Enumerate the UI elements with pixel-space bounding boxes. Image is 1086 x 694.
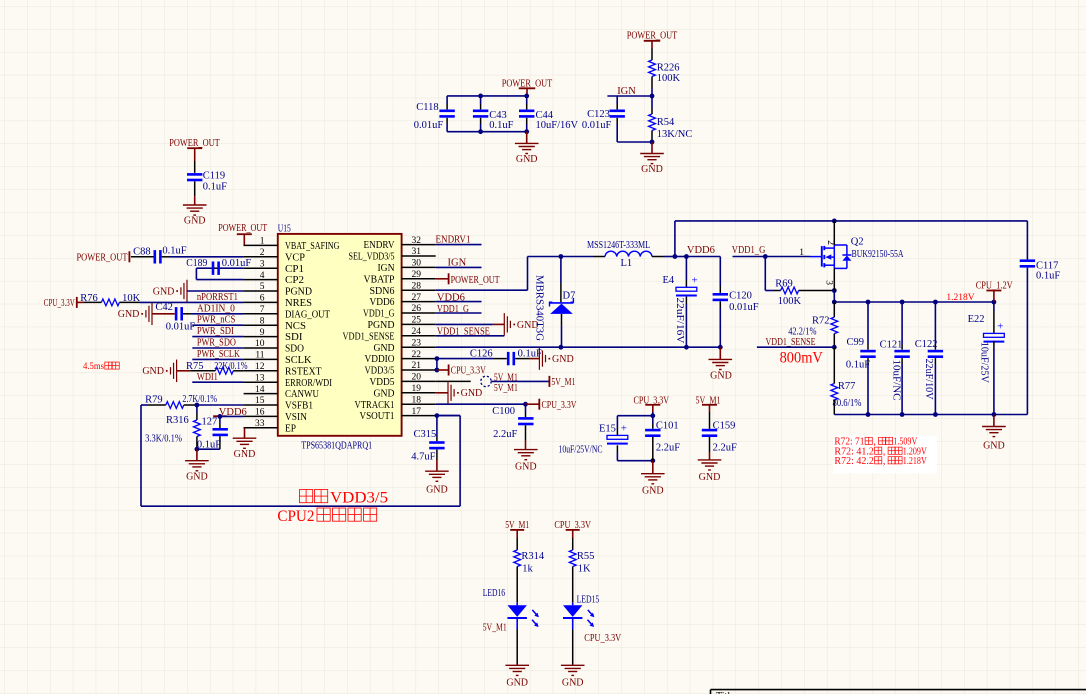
svg-text:IGN: IGN [378, 263, 395, 274]
wire net POWER_OUT top [447, 95, 527, 97]
junction [933, 300, 938, 305]
pin 16 (VSIN) [244, 415, 278, 417]
wire net PWR_SDI [192, 336, 243, 338]
junction [195, 447, 200, 452]
junction [832, 219, 837, 224]
pin 25 (PGND) [402, 323, 436, 325]
svg-text:R54: R54 [657, 117, 675, 128]
ground (below C119) [183, 204, 207, 206]
svg-text:PGND: PGND [368, 320, 395, 331]
inductor L1 [593, 256, 605, 258]
wire net nPORRST1 [140, 301, 244, 303]
svg-text:VDD6: VDD6 [687, 245, 715, 256]
svg-text:13: 13 [255, 373, 265, 383]
ground (at C42) [151, 303, 153, 326]
svg-text:28: 28 [412, 281, 422, 291]
svg-text:C99: C99 [847, 337, 865, 348]
junction [523, 402, 528, 407]
wire [561, 256, 593, 258]
svg-text:CANWU: CANWU [285, 389, 320, 400]
svg-text:0.01uF: 0.01uF [729, 302, 759, 313]
pin 18 (VTRACK1) [402, 403, 436, 405]
pin 8 (NCS) [244, 324, 278, 326]
pin 17 (VSOUT1) [402, 415, 436, 417]
wire net VDD1_G [733, 256, 811, 258]
power port CPU_3.3V (pin 18) [526, 403, 540, 405]
svg-text:22uF/10V: 22uF/10V [923, 359, 934, 400]
junction [866, 300, 871, 305]
wire output rail CPU_1.2V [833, 291, 835, 303]
svg-text:VSFB1: VSFB1 [285, 401, 313, 412]
ground (at R75) [176, 360, 178, 383]
svg-text:1: 1 [799, 248, 804, 258]
capacitor C117 [1026, 221, 1028, 260]
junction [559, 345, 564, 350]
ground (below C315) [436, 460, 438, 471]
svg-text:R79: R79 [145, 394, 163, 405]
junction [900, 300, 905, 305]
svg-text:TPS65381QDAPRQ1: TPS65381QDAPRQ1 [301, 441, 372, 452]
svg-text:VDD1_G: VDD1_G [363, 309, 395, 320]
svg-text:VDD3/5: VDD3/5 [330, 490, 388, 507]
wire [194, 161, 196, 173]
svg-text:NCS: NCS [285, 321, 306, 332]
svg-text:+: + [621, 423, 627, 435]
svg-text:24: 24 [412, 327, 422, 337]
wire GND bottom row [446, 124, 448, 132]
svg-text:CPU_3.3V: CPU_3.3V [542, 400, 577, 411]
svg-text:SDI: SDI [285, 332, 303, 343]
capacitor C42 [152, 313, 175, 315]
ground (below E22) [993, 415, 995, 427]
op-amp U1 body rectangle (IC U15 TPS65381QDAPRQ1) [278, 234, 402, 436]
wire pin17 VSOUT1 [436, 415, 460, 417]
svg-text:MBRS340T3G: MBRS340T3G [534, 275, 545, 341]
junction [992, 412, 997, 417]
junction [992, 300, 997, 305]
wire net WDI1 [192, 381, 243, 383]
capacitor C101 [652, 416, 654, 424]
svg-text:ENDRV: ENDRV [364, 240, 396, 251]
wire pin18 VTRACK1 [436, 403, 526, 405]
svg-text:VTRACK1: VTRACK1 [355, 400, 395, 411]
pin 12 (RSTEXT) [244, 370, 278, 372]
svg-text:0.1uF: 0.1uF [518, 348, 542, 359]
svg-text:D7: D7 [563, 290, 576, 301]
junction [559, 254, 564, 259]
svg-text:R316: R316 [166, 415, 189, 426]
resistor R54 [651, 96, 653, 108]
capacitor C189 [212, 267, 220, 269]
svg-text:C100: C100 [492, 406, 515, 417]
svg-text:2: 2 [260, 248, 265, 258]
svg-text:GND: GND [461, 388, 483, 399]
pin 20 (VDD5) [402, 380, 436, 382]
wire net VDD1_G pin26 [436, 312, 482, 314]
svg-text:4: 4 [260, 271, 265, 281]
svg-text:C122: C122 [915, 339, 938, 350]
svg-text:C123: C123 [587, 109, 610, 120]
svg-text:RSTEXT: RSTEXT [285, 366, 322, 377]
ground (below R54) [651, 142, 653, 154]
pin 29 (VBATP) [402, 278, 436, 280]
wire feedback loop VSOUT1 to R79 [140, 405, 142, 506]
pin 23 (GND) [402, 346, 436, 348]
pin 21 (VDD3/5) [402, 369, 436, 371]
svg-text:+: + [692, 275, 698, 287]
capacitor C120 [719, 257, 721, 287]
ground (below C159) [709, 452, 711, 460]
svg-text:R77: R77 [838, 381, 856, 392]
junction [478, 94, 483, 99]
svg-text:GND: GND [374, 388, 395, 399]
svg-text:20: 20 [412, 373, 422, 383]
svg-text:33: 33 [255, 419, 265, 429]
junction [435, 356, 440, 361]
resistor R316 [196, 405, 198, 413]
svg-text:,: , [883, 456, 886, 467]
wire pin15 [197, 404, 244, 406]
svg-text:3: 3 [260, 259, 265, 269]
wire [194, 181, 196, 196]
resistor R72 [833, 302, 835, 317]
svg-text:2: 2 [825, 240, 835, 245]
svg-text:POWER_OUT: POWER_OUT [627, 30, 678, 41]
svg-text:GND: GND [506, 678, 528, 689]
svg-text:22uF/16V: 22uF/16V [674, 298, 685, 344]
svg-text:GND: GND [710, 370, 732, 381]
svg-text:R72: R72 [812, 315, 830, 326]
svg-text:C119: C119 [203, 170, 225, 181]
svg-text:42.2/1%: 42.2/1% [788, 326, 816, 337]
svg-text:LED15: LED15 [577, 595, 600, 606]
capacitor C100 [525, 404, 527, 413]
svg-text:10uF/25V/NC: 10uF/25V/NC [559, 444, 603, 455]
wire [664, 256, 675, 258]
pin 31 (SEL_VDD3/5) [402, 255, 436, 257]
wire pin5 [187, 290, 244, 292]
svg-text:C88: C88 [133, 247, 151, 258]
svg-text:E15: E15 [599, 424, 616, 435]
svg-text:80.6/1%: 80.6/1% [833, 398, 862, 409]
svg-text:100K: 100K [778, 296, 802, 307]
svg-text:4.5ms: 4.5ms [83, 362, 104, 372]
wire [651, 88, 653, 96]
wire net CP1-CP2 [220, 267, 244, 269]
svg-text:GND: GND [234, 449, 256, 460]
svg-text:GND: GND [641, 164, 663, 175]
svg-text:R314: R314 [521, 551, 545, 562]
wire net VDD6 pin27 [436, 301, 482, 303]
wire bottom rail [834, 414, 1027, 416]
capacitor C119 [187, 173, 202, 176]
capacitor C43 [480, 104, 482, 109]
svg-text:+: + [997, 320, 1003, 332]
junction [900, 412, 905, 417]
svg-text:0.01uF: 0.01uF [166, 322, 196, 333]
svg-text:0.01uF: 0.01uF [414, 120, 444, 131]
junction [718, 345, 723, 350]
pin 10 (SDO) [244, 347, 278, 349]
svg-text:11: 11 [255, 351, 264, 361]
resistor R69 [764, 257, 766, 291]
svg-text:PWR_SCLK: PWR_SCLK [197, 349, 240, 360]
ground (at C126) [529, 358, 539, 360]
svg-text:CPU_3.3V: CPU_3.3V [584, 633, 621, 644]
junction [650, 413, 655, 418]
capacitor C123 [616, 104, 618, 109]
wire pin1 [243, 244, 246, 246]
junction [650, 140, 655, 145]
svg-text:GND: GND [552, 354, 574, 365]
wire net GND rail (pin 23) [436, 346, 721, 348]
capacitor C159 [709, 412, 711, 429]
svg-text:LED16: LED16 [483, 588, 505, 599]
annotation tracking VDD3/5 (red) [300, 490, 313, 503]
resistor R77 [833, 347, 835, 383]
svg-text:E4: E4 [663, 275, 675, 286]
svg-text:VDDIO: VDDIO [365, 354, 395, 365]
svg-text:Q2: Q2 [851, 237, 864, 248]
pin 14 (CANWU) [244, 393, 278, 395]
pin 6 (NRES) [244, 301, 278, 303]
svg-text:1k: 1k [522, 564, 533, 575]
svg-text:C101: C101 [656, 420, 679, 431]
capacitor C44 [526, 104, 528, 109]
svg-text:13K/NC: 13K/NC [657, 129, 693, 140]
svg-text:GND: GND [699, 472, 721, 483]
wire net SDN6 [436, 289, 528, 291]
svg-text:0.1uF: 0.1uF [162, 245, 186, 256]
svg-text:VDD1_G: VDD1_G [732, 245, 766, 256]
pin 22 (VDDIO) [402, 358, 436, 360]
svg-text:14: 14 [255, 385, 265, 395]
pin 33 (EP) [244, 427, 278, 429]
node IGN junction [650, 94, 655, 99]
svg-text:GND: GND [642, 486, 664, 497]
junction [684, 345, 689, 350]
pin 3 (CP1) [244, 267, 278, 269]
svg-text:POWER_OUT: POWER_OUT [77, 252, 128, 263]
junction [832, 300, 837, 305]
svg-text:2.2uF: 2.2uF [713, 443, 737, 454]
svg-text:VSOUT1: VSOUT1 [360, 411, 395, 422]
junction [673, 254, 678, 259]
junction [832, 345, 837, 350]
svg-text:9: 9 [260, 328, 265, 338]
svg-text:5V_M1: 5V_M1 [494, 383, 518, 394]
svg-text:GND: GND [374, 343, 395, 354]
svg-text:GND: GND [426, 485, 448, 496]
svg-text:10K: 10K [122, 293, 141, 304]
svg-text:GND: GND [142, 366, 164, 377]
svg-text:GND: GND [184, 216, 206, 227]
svg-text:SCLK: SCLK [285, 355, 312, 366]
svg-text:5V_M1: 5V_M1 [551, 377, 575, 388]
svg-text:R55: R55 [577, 551, 595, 562]
svg-text:1.218V: 1.218V [946, 293, 974, 303]
wire net to VCP [170, 256, 244, 258]
capacitor E22 (electrolytic) [993, 302, 995, 311]
svg-text:100K: 100K [657, 73, 681, 84]
pin 2 (VCP) [244, 256, 278, 258]
pin 28 (SDN6) [402, 289, 436, 291]
svg-text:10uF/16V: 10uF/16V [536, 120, 579, 131]
svg-text:DIAG_OUT: DIAG_OUT [285, 309, 330, 320]
svg-text:27: 27 [412, 293, 422, 303]
junction [933, 412, 938, 417]
svg-text:POWER_OUT: POWER_OUT [218, 223, 267, 234]
svg-text:21: 21 [412, 361, 422, 371]
svg-text:E22: E22 [968, 314, 985, 325]
pin 27 (VDD6) [402, 301, 436, 303]
title block border [711, 690, 1086, 694]
svg-text:POWER_OUT: POWER_OUT [451, 275, 500, 286]
svg-text:VDD3/5: VDD3/5 [365, 366, 395, 377]
ground (EP pin 33) [233, 437, 257, 439]
svg-text:AD1IN_0: AD1IN_0 [197, 303, 235, 314]
wire net PWR_nCS [192, 324, 243, 326]
svg-text:nPORRST1: nPORRST1 [197, 292, 238, 303]
svg-text:C121: C121 [880, 340, 903, 351]
capacitor E15 (electrolytic) [616, 416, 618, 428]
svg-text:31: 31 [412, 247, 422, 257]
junction [218, 414, 223, 419]
svg-text:R72: 42.2: R72: 42.2 [834, 456, 874, 467]
svg-text:C315: C315 [414, 429, 437, 440]
power port 5V_M1 (pin 20) [548, 376, 550, 387]
capacitor C315 [436, 416, 438, 437]
svg-text:PGND: PGND [285, 287, 312, 298]
wire net ENDRV1 [436, 244, 482, 246]
wire [616, 124, 618, 142]
svg-text:16: 16 [255, 408, 265, 418]
svg-text:GND: GND [562, 678, 584, 689]
capacitor C99 [867, 302, 869, 344]
svg-text:CP1: CP1 [285, 264, 304, 275]
svg-text:22: 22 [412, 350, 422, 360]
svg-text:GND: GND [186, 471, 208, 482]
svg-text:CPU_3.3V: CPU_3.3V [451, 366, 486, 377]
no-ERC marker (pin 20) [481, 376, 491, 386]
svg-text:29: 29 [412, 270, 422, 280]
junction [195, 403, 200, 408]
schottky diode D7 [560, 257, 562, 284]
svg-text:R75: R75 [186, 361, 204, 372]
svg-text:8: 8 [260, 316, 265, 326]
svg-text:7: 7 [260, 305, 265, 315]
svg-text:2.2uF: 2.2uF [493, 429, 517, 440]
svg-text:23: 23 [412, 338, 422, 348]
svg-text:R69: R69 [775, 279, 793, 290]
pin 24 (VDD1_SENSE) [402, 335, 436, 337]
svg-text:26: 26 [412, 304, 422, 314]
svg-text:3: 3 [823, 280, 833, 285]
svg-text:VDD1_SENSE: VDD1_SENSE [343, 331, 395, 342]
junction [524, 94, 529, 99]
pin 9 (SDI) [244, 336, 278, 338]
svg-text:SDO: SDO [285, 344, 304, 355]
svg-text:PWR_SDO: PWR_SDO [197, 338, 236, 349]
ground (pin 5 PGND) [186, 280, 188, 303]
wire E15-C101 [617, 415, 652, 417]
svg-text:GND: GND [516, 154, 538, 165]
svg-text:VBATP: VBATP [364, 274, 395, 285]
svg-text:C42: C42 [155, 302, 173, 313]
svg-text:2.2uF: 2.2uF [656, 443, 680, 454]
svg-text:C159: C159 [713, 420, 736, 431]
svg-text:VBAT_SAFING: VBAT_SAFING [285, 241, 340, 252]
wire net VDD1_SENSE right [757, 346, 834, 348]
svg-text:32: 32 [412, 236, 422, 246]
svg-text:15: 15 [255, 396, 265, 406]
svg-text:U15: U15 [278, 223, 291, 234]
junction [763, 254, 768, 259]
pin 5 (PGND) [244, 290, 278, 292]
junction [524, 129, 529, 134]
wire VDD6 top run [674, 221, 676, 257]
ground (below C100) [525, 440, 527, 450]
svg-text:19: 19 [412, 384, 422, 394]
svg-text:4.7uF: 4.7uF [411, 451, 435, 462]
svg-text:17: 17 [412, 407, 422, 417]
junction [832, 288, 837, 293]
wire net VDD1_SENSE pin24 [436, 335, 505, 337]
svg-text:127: 127 [202, 417, 218, 428]
svg-text:2.7K/0.1%: 2.7K/0.1% [182, 394, 217, 405]
annotation notes background [833, 436, 937, 474]
svg-text:PWR_nCS: PWR_nCS [197, 315, 236, 326]
pin 26 (VDD1_G) [402, 312, 436, 314]
capacitor C126 [494, 358, 507, 360]
svg-text:3.3K/0.1%: 3.3K/0.1% [145, 433, 182, 444]
svg-text:10uF/25V: 10uF/25V [979, 342, 990, 383]
svg-text:1.218V: 1.218V [903, 456, 928, 467]
wire pin25 PGND [436, 323, 493, 325]
svg-text:5: 5 [260, 282, 265, 292]
ground (pin 19) [436, 392, 448, 394]
svg-text:VDD1_SENSE: VDD1_SENSE [766, 337, 816, 348]
ground (below C101) [652, 461, 654, 474]
pin 7 (DIAG_OUT) [244, 313, 278, 315]
pin 11 (SCLK) [244, 358, 278, 360]
resistor R76 [84, 301, 101, 303]
pin 15 (VSFB1) [244, 404, 278, 406]
ground (below C120) [719, 347, 721, 359]
svg-text:GND: GND [118, 309, 140, 320]
wire net 5V_M1 [491, 380, 549, 382]
pin 32 (ENDRV) [402, 244, 436, 246]
svg-text:VSIN: VSIN [285, 412, 307, 423]
svg-text:R76: R76 [80, 293, 98, 304]
resistor R226 [651, 48, 653, 60]
junction [684, 254, 689, 259]
svg-text:800mV: 800mV [780, 350, 824, 367]
capacitor C118 [446, 104, 448, 109]
svg-text:5V_M1: 5V_M1 [483, 622, 507, 633]
svg-text:GND: GND [515, 462, 537, 473]
svg-text:C126: C126 [470, 349, 493, 360]
svg-text:12: 12 [255, 362, 265, 372]
svg-text:C120: C120 [729, 290, 752, 301]
transistor Q2 (BUK92150-55A MOSFET) [810, 256, 822, 258]
capacitor C127 [219, 416, 221, 424]
capacitor C122 [934, 302, 936, 344]
svg-text:ERROR/WDI: ERROR/WDI [285, 378, 332, 389]
svg-text:CPU2: CPU2 [277, 508, 314, 525]
svg-text:25: 25 [412, 316, 422, 326]
svg-text:GND: GND [153, 286, 175, 297]
